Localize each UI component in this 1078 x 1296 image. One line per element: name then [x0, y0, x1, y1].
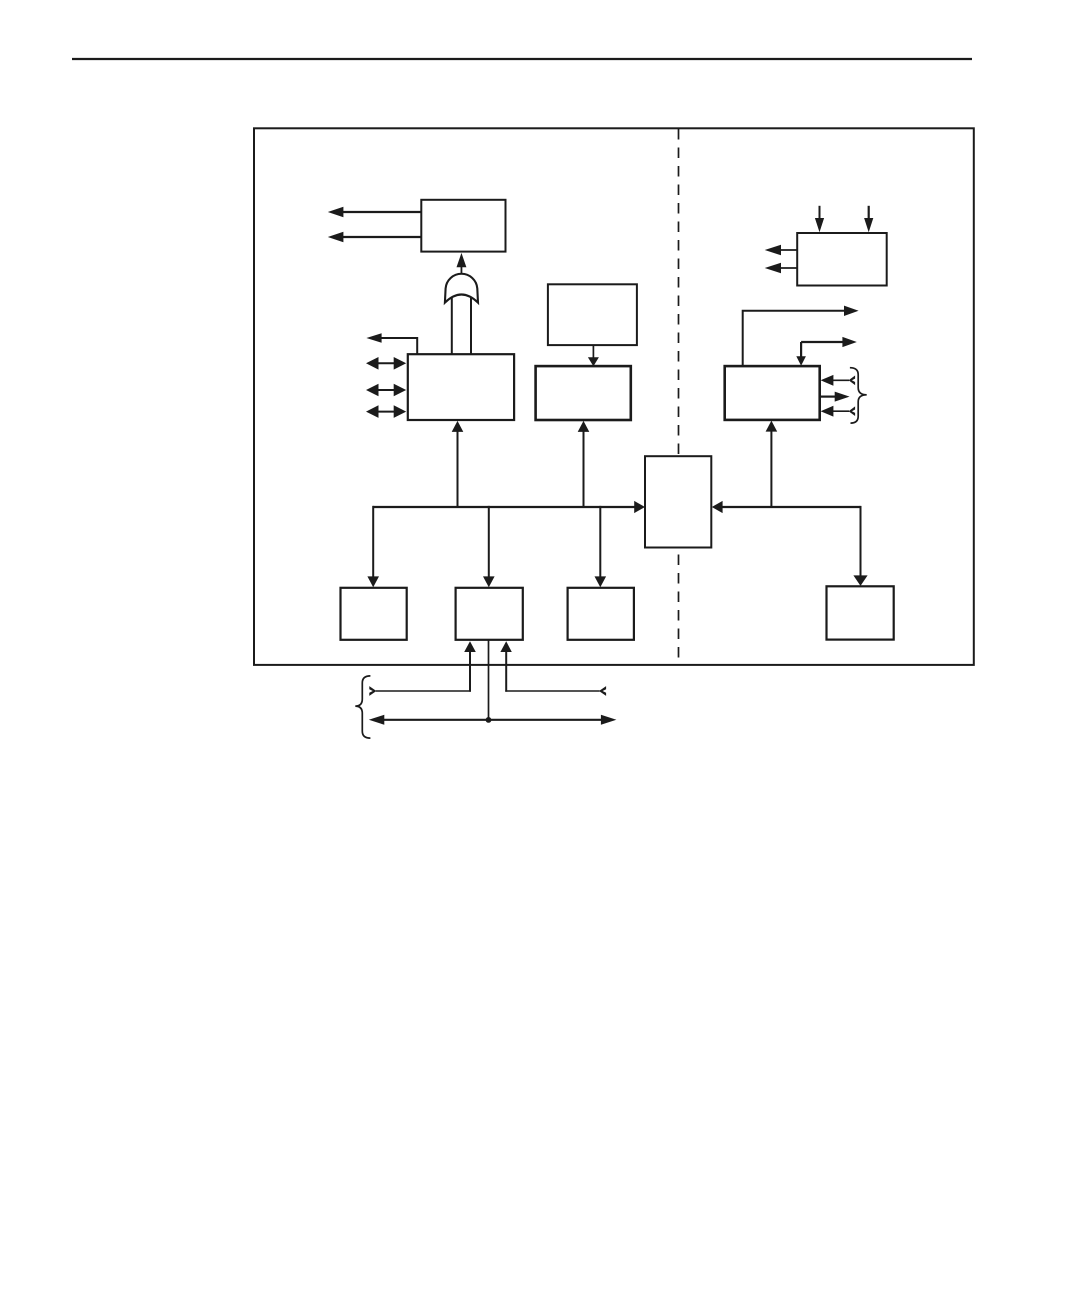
outer enclosure: [254, 128, 974, 665]
wire: block F right input a: [821, 375, 856, 386]
wire: bus corner down to block H4: [853, 506, 867, 586]
wire: block H2 down to lower bus line 2: [488, 641, 490, 721]
block H2: [456, 588, 523, 640]
block H4: [827, 586, 894, 639]
wire: block F top-left output: [743, 306, 859, 367]
wire: bidirectional bus 1 on block B left: [366, 357, 406, 370]
wire: down input 2 into block E: [864, 206, 873, 232]
wire: block E output 2: [765, 263, 798, 274]
top rule: [72, 58, 972, 60]
chevron left at line 1 right end: [599, 686, 606, 696]
block E: [797, 233, 887, 286]
wire: block C to block D: [588, 345, 599, 366]
wire: bus tap up to block B: [452, 421, 464, 508]
wire: block F right input c: [821, 406, 856, 417]
block C: [548, 284, 637, 345]
wire: right data bus into block G: [712, 501, 861, 513]
block H1: [341, 588, 407, 640]
wire: lower bus line 1 left segment: [376, 690, 471, 692]
block A: [421, 200, 505, 252]
wire: lower bus line 2 double arrow: [369, 715, 617, 725]
wire: line 1 tap up into block H2 right: [500, 641, 511, 691]
wire: bus tap down to block H3: [595, 506, 607, 587]
junction dot on line 2: [486, 717, 492, 723]
block H3: [568, 588, 634, 640]
block B: [408, 354, 514, 420]
block D: [536, 366, 631, 420]
wire: bus tap up to block D: [578, 421, 590, 508]
wire: tube right from block B to OR gate: [470, 296, 472, 355]
wire: block A output 2: [328, 232, 422, 243]
wire: tube left from block B to OR gate: [451, 296, 453, 355]
wire: bus tap down to block H1: [367, 506, 379, 587]
wire: line 1 tap up into block H2 left: [464, 641, 476, 691]
brace left of lower bus: [355, 676, 370, 738]
dashed divider: [678, 129, 680, 664]
OR gate: [445, 274, 478, 303]
wire: block E output 1: [765, 245, 798, 256]
block F: [725, 366, 820, 420]
wire: bidirectional bus 2 on block B left: [366, 384, 406, 397]
wire: OR gate output arrow into block A: [457, 253, 467, 274]
wire: block B top-left output: [366, 333, 417, 354]
wire: left data bus into block G: [373, 501, 645, 513]
wire: block F right output b: [820, 392, 850, 402]
brace right of block F: [850, 368, 867, 423]
wire: down input 1 into block E: [815, 206, 824, 232]
wire: bidirectional bus 3 on block B left: [366, 405, 406, 418]
wire: bus tap up to block F: [766, 421, 778, 508]
wire: lower bus line 1 right segment: [505, 690, 599, 692]
wire: block F second output with down arrow: [796, 337, 857, 366]
wire: bus tap down to block H2: [483, 506, 495, 587]
chevron right at line 1 left end: [369, 686, 376, 696]
block G: [645, 456, 711, 547]
wire: block A output 1: [328, 207, 422, 218]
